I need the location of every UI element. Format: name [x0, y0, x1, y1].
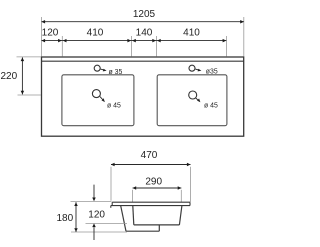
svg-text:ø 35: ø 35 — [109, 69, 123, 76]
basin bowl section — [121, 206, 182, 232]
right basin rectangle — [157, 75, 227, 126]
dimension 120 lower tail and arrow — [93, 227, 95, 240]
dimension line 180 — [75, 202, 77, 232]
extension tick at right basin right — [225, 36, 227, 57]
left basin rectangle — [62, 75, 134, 126]
svg-text:220: 220 — [1, 71, 18, 82]
extension line 180 bottom — [71, 231, 127, 233]
svg-text:140: 140 — [136, 28, 153, 39]
dimension line 1205 — [42, 21, 244, 23]
svg-text:290: 290 — [145, 176, 162, 187]
bowl inner left wall — [133, 206, 134, 225]
extension line 220 top — [17, 56, 42, 58]
svg-text:ø 45: ø 45 — [204, 102, 218, 109]
drain step bottom — [126, 230, 159, 232]
leader arrow left d45 — [100, 97, 105, 103]
dimension 120 upper tail and arrow — [93, 185, 95, 198]
leader arrow left d35 — [101, 69, 107, 72]
extension line 180/120 top — [71, 200, 112, 202]
arrows 140 segment — [132, 39, 136, 43]
leader arrow right d35 — [195, 69, 201, 72]
back ledge line — [42, 60, 244, 62]
extension tick at left basin edge — [61, 36, 63, 57]
dimension line 470 — [111, 164, 191, 166]
arrows 410 segment 2 — [157, 39, 161, 43]
right faucet hole d35 — [189, 65, 195, 71]
svg-text:120: 120 — [88, 209, 105, 220]
extension line left edge (for 1205/120) — [41, 17, 43, 57]
drain step right edge — [158, 225, 160, 231]
dimension line 220 — [21, 57, 23, 94]
svg-text:470: 470 — [141, 150, 158, 161]
extension line 470 left — [110, 167, 112, 201]
extension line 290 left — [132, 190, 134, 202]
arrows 120 segment — [41, 39, 45, 43]
extension line 290 right — [180, 190, 182, 202]
leader arrow right d45 — [196, 98, 201, 102]
left drain hole d45 — [92, 90, 100, 98]
arrows 410 segment 1 — [63, 39, 67, 43]
svg-text:410: 410 — [87, 28, 104, 39]
extension tick at left basin right — [131, 36, 133, 57]
bowl inner bottom — [134, 224, 180, 226]
extension line 470 right — [190, 167, 192, 202]
right drain hole d45 — [189, 91, 197, 99]
dimension line row 2 — [42, 40, 227, 42]
left faucet hole d35 — [94, 65, 100, 71]
bowl outer left wall — [121, 206, 126, 232]
countertop slab section — [111, 202, 190, 208]
svg-text:120: 120 — [42, 28, 59, 39]
svg-text:ø 45: ø 45 — [107, 102, 121, 109]
extension tick at right basin left — [156, 36, 158, 57]
svg-text:ø35: ø35 — [206, 69, 218, 76]
extension line right edge (for 1205) — [243, 17, 245, 57]
dimension line 290 — [133, 187, 182, 189]
washbasin outer rectangle (plan view) — [42, 57, 244, 136]
svg-text:410: 410 — [183, 28, 200, 39]
svg-text:180: 180 — [57, 213, 74, 224]
bowl right wall — [179, 206, 182, 225]
svg-text:1205: 1205 — [133, 9, 156, 20]
extension line 220 bottom — [18, 94, 42, 96]
extension line 120 bottom — [86, 223, 128, 225]
